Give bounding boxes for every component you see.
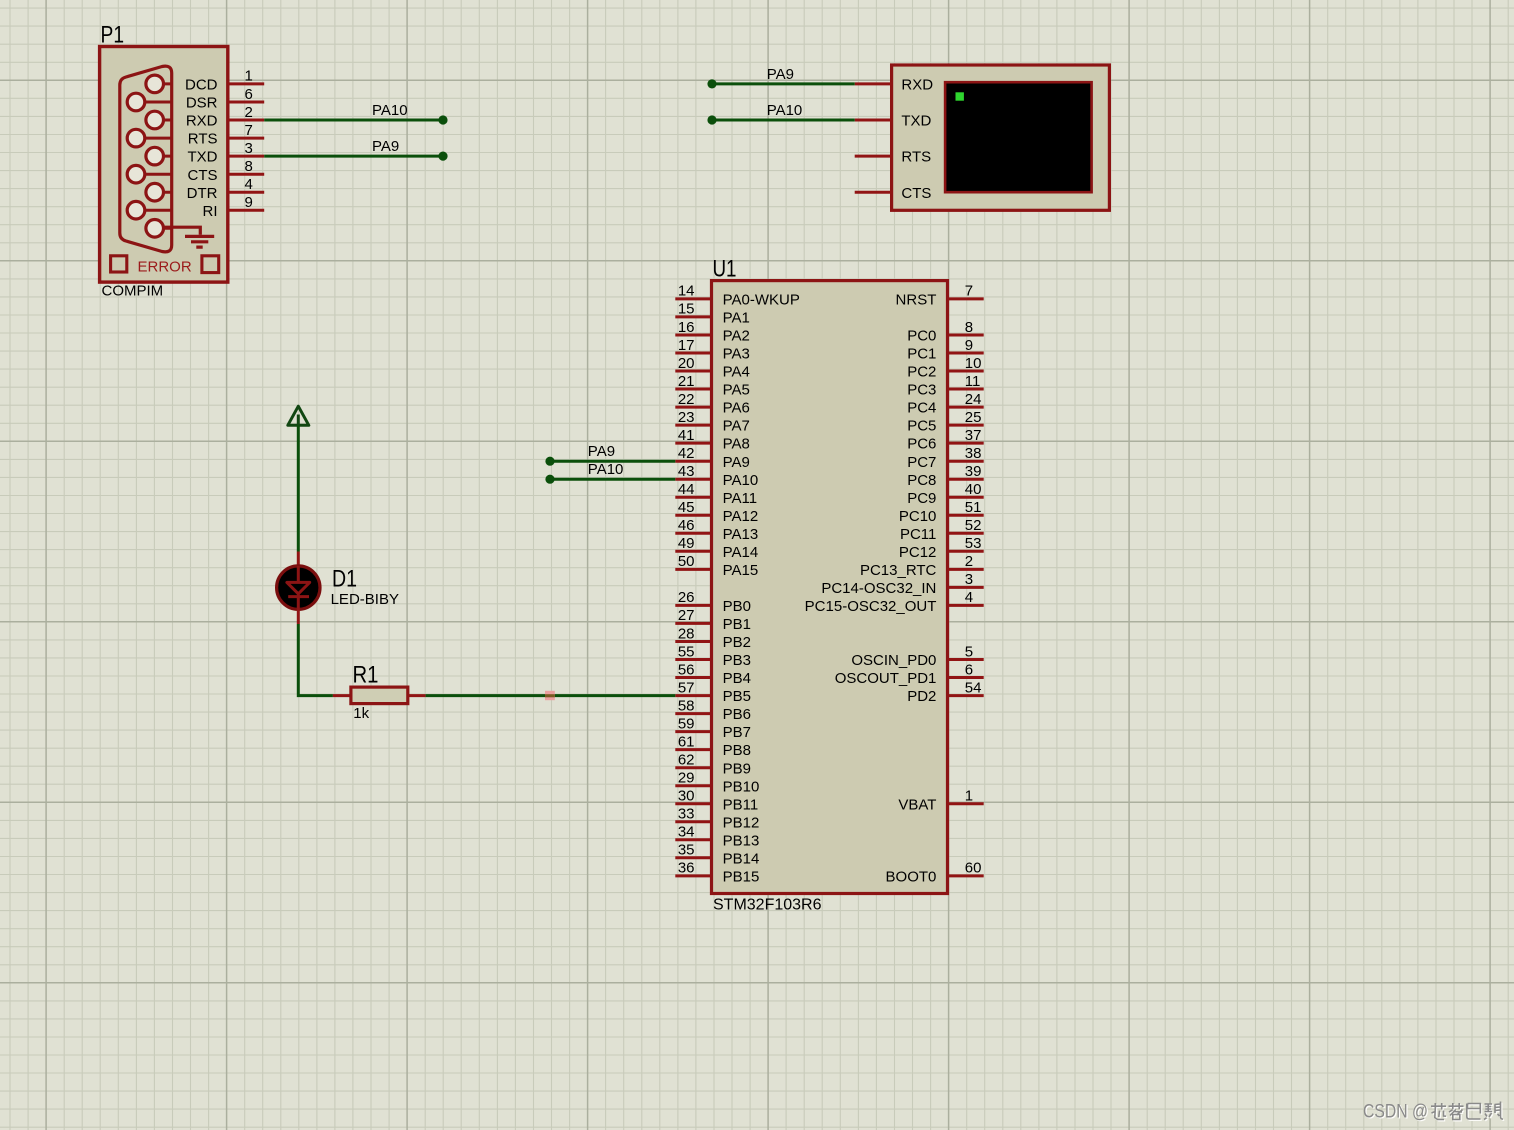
svg-text:PC13_RTC: PC13_RTC [860, 562, 937, 579]
pin PB3, pin number 55 of U1 (left) [675, 643, 751, 669]
svg-text:26: 26 [678, 589, 695, 606]
svg-text:PB14: PB14 [723, 850, 760, 867]
DB9 shell outline [120, 66, 172, 252]
LED D1 anode pin [297, 552, 300, 567]
svg-text:OSCIN_PD0: OSCIN_PD0 [851, 652, 936, 669]
resistor R1 right pin [408, 694, 426, 697]
pin PC6, pin number 37 of U1 (right) [907, 427, 983, 453]
pin PC2, pin number 10 of U1 (right) [907, 355, 983, 381]
svg-text:15: 15 [678, 301, 695, 318]
pin PB13, pin number 34 of U1 (left) [675, 824, 759, 850]
svg-text:PB7: PB7 [723, 724, 751, 741]
wire PA9 to terminal RXD [712, 82, 855, 85]
svg-text:8: 8 [965, 319, 973, 336]
svg-text:PC12: PC12 [899, 544, 937, 561]
svg-text:PB9: PB9 [723, 760, 751, 777]
pin BOOT0, pin number 60 of U1 (right) [886, 860, 984, 886]
svg-text:8: 8 [245, 158, 253, 175]
svg-text:4: 4 [245, 176, 253, 193]
pin PC4, pin number 24 of U1 (right) [907, 391, 983, 417]
terminal pin TXD [855, 113, 932, 130]
svg-text:COMPIM: COMPIM [102, 282, 164, 299]
svg-text:PA4: PA4 [723, 364, 750, 381]
pin PB9, pin number 62 of U1 (left) [675, 752, 751, 778]
svg-text:PC9: PC9 [907, 490, 936, 507]
LED D1 body [277, 566, 320, 610]
svg-text:PB0: PB0 [723, 598, 751, 615]
svg-text:PA14: PA14 [723, 544, 759, 561]
svg-text:PA6: PA6 [723, 400, 750, 417]
pin PA2, pin number 16 of U1 (left) [675, 319, 750, 345]
svg-text:PB1: PB1 [723, 616, 751, 633]
svg-text:U1: U1 [713, 255, 737, 282]
svg-text:43: 43 [678, 463, 695, 480]
ground symbol inside P1 [164, 227, 215, 247]
svg-text:RTS: RTS [901, 149, 931, 166]
svg-text:PB11: PB11 [723, 796, 759, 813]
svg-text:PC6: PC6 [907, 436, 936, 453]
virtual terminal body [892, 65, 1110, 210]
pin PC5, pin number 25 of U1 (right) [907, 409, 983, 435]
svg-text:PC15-OSC32_OUT: PC15-OSC32_OUT [805, 598, 937, 615]
svg-text:PA1: PA1 [723, 310, 750, 327]
svg-text:1: 1 [965, 788, 973, 805]
terminal pin RTS [855, 149, 931, 166]
svg-text:24: 24 [965, 391, 982, 408]
pin PB7, pin number 59 of U1 (left) [675, 715, 751, 741]
connector P1 COMPIM body [100, 47, 228, 283]
pin PC7, pin number 38 of U1 (right) [907, 445, 983, 471]
svg-text:53: 53 [965, 535, 982, 552]
ERROR indicator right square [202, 256, 219, 273]
svg-text:11: 11 [965, 373, 981, 390]
svg-text:BOOT0: BOOT0 [886, 869, 937, 886]
svg-text:PA12: PA12 [723, 508, 759, 525]
pin PA6, pin number 22 of U1 (left) [675, 391, 750, 417]
svg-text:37: 37 [965, 427, 982, 444]
wire PA9 from P1 TXD pin 3 [264, 155, 443, 158]
terminal cursor [956, 92, 964, 100]
svg-text:ERROR: ERROR [138, 258, 192, 275]
svg-text:17: 17 [678, 337, 695, 354]
pin PD2, pin number 54 of U1 (right) [907, 679, 983, 705]
svg-text:39: 39 [965, 463, 982, 480]
watermark CSDN [1363, 1102, 1504, 1124]
svg-text:27: 27 [678, 607, 695, 624]
svg-text:PB3: PB3 [723, 652, 751, 669]
svg-text:RI: RI [203, 203, 218, 220]
svg-text:55: 55 [678, 643, 695, 660]
pin PB6, pin number 58 of U1 (left) [675, 697, 751, 723]
svg-text:38: 38 [965, 445, 982, 462]
pin PC15-OSC32_OUT, pin number 4 of U1 (right) [805, 589, 984, 615]
svg-text:56: 56 [678, 661, 695, 678]
svg-text:PC3: PC3 [907, 382, 936, 399]
svg-text:7: 7 [245, 122, 253, 139]
svg-text:PB13: PB13 [723, 832, 760, 849]
simulation logic-state marker on PB5 wire [545, 691, 555, 700]
svg-text:DSR: DSR [186, 95, 218, 112]
svg-text:44: 44 [678, 481, 695, 498]
svg-text:51: 51 [965, 499, 982, 516]
svg-text:6: 6 [245, 86, 253, 103]
svg-text:STM32F103R6: STM32F103R6 [713, 897, 822, 914]
svg-text:PB6: PB6 [723, 706, 751, 723]
svg-text:9: 9 [245, 194, 253, 211]
svg-text:PD2: PD2 [907, 688, 936, 705]
svg-text:R1: R1 [353, 661, 379, 688]
pin PA5, pin number 21 of U1 (left) [675, 373, 750, 399]
svg-text:40: 40 [965, 481, 982, 498]
pin DTR, pin number 4 of P1 [187, 176, 265, 202]
svg-text:5: 5 [965, 643, 973, 660]
svg-text:9: 9 [965, 337, 973, 354]
pin PC11, pin number 52 of U1 (right) [900, 517, 984, 543]
svg-text:PB8: PB8 [723, 742, 751, 759]
svg-text:PC5: PC5 [907, 418, 936, 435]
svg-text:PA10: PA10 [588, 461, 624, 478]
pin PC13_RTC, pin number 2 of U1 (right) [860, 553, 984, 579]
pin PC0, pin number 8 of U1 (right) [907, 319, 983, 345]
wire D1 cathode to R1 (down and right) [298, 624, 333, 696]
svg-text:28: 28 [678, 625, 695, 642]
svg-text:PC2: PC2 [907, 364, 936, 381]
svg-text:22: 22 [678, 391, 695, 408]
pin PC14-OSC32_IN, pin number 3 of U1 (right) [821, 571, 983, 597]
svg-text:PC7: PC7 [907, 454, 936, 471]
svg-text:PA5: PA5 [723, 382, 750, 399]
svg-text:PB10: PB10 [723, 778, 760, 795]
svg-text:VBAT: VBAT [898, 796, 936, 813]
pin OSCOUT_PD1, pin number 6 of U1 (right) [835, 661, 984, 687]
pin RTS, pin number 7 of P1 [188, 122, 264, 148]
svg-text:33: 33 [678, 806, 695, 823]
pin DCD, pin number 1 of P1 [185, 68, 264, 94]
pin PB5, pin number 57 of U1 (left) [675, 679, 751, 705]
svg-text:60: 60 [965, 860, 982, 877]
svg-text:1: 1 [245, 68, 253, 85]
wire PA10 to terminal TXD [712, 119, 855, 122]
svg-text:PA8: PA8 [723, 436, 750, 453]
svg-text:30: 30 [678, 788, 695, 805]
svg-text:42: 42 [678, 445, 695, 462]
pin PB4, pin number 56 of U1 (left) [675, 661, 751, 687]
svg-text:TXD: TXD [188, 149, 218, 166]
svg-text:4: 4 [965, 589, 973, 606]
pin TXD, pin number 3 of P1 [188, 140, 265, 166]
pin PC1, pin number 9 of U1 (right) [907, 337, 983, 363]
svg-text:57: 57 [678, 679, 695, 696]
svg-text:PA10: PA10 [372, 102, 408, 119]
ERROR indicator left square [111, 256, 127, 272]
svg-text:CTS: CTS [901, 185, 931, 202]
svg-text:59: 59 [678, 715, 695, 732]
pin OSCIN_PD0, pin number 5 of U1 (right) [851, 643, 983, 669]
terminal pin CTS [855, 185, 932, 202]
svg-text:TXD: TXD [901, 113, 931, 130]
svg-text:CTS: CTS [188, 167, 218, 184]
wire R1 to U1 PB5 pin 57 [426, 694, 676, 697]
wire PA10 to U1 pin 43 [550, 478, 675, 481]
resistor R1 body [351, 687, 408, 704]
pin PA11, pin number 44 of U1 (left) [675, 481, 757, 507]
wire PA10 from P1 RXD pin 2 [264, 119, 443, 122]
svg-text:21: 21 [678, 373, 695, 390]
svg-text:NRST: NRST [896, 292, 937, 309]
svg-text:7: 7 [965, 283, 973, 300]
svg-text:DTR: DTR [187, 185, 218, 202]
svg-text:PB12: PB12 [723, 814, 760, 831]
pin PC12, pin number 53 of U1 (right) [899, 535, 984, 561]
pin PB10, pin number 29 of U1 (left) [675, 770, 759, 796]
svg-text:PB4: PB4 [723, 670, 751, 687]
pin PB1, pin number 27 of U1 (left) [675, 607, 751, 633]
svg-text:14: 14 [678, 283, 695, 300]
svg-text:CSDN @: CSDN @ [1363, 1102, 1428, 1123]
svg-text:10: 10 [965, 355, 982, 372]
svg-text:PA9: PA9 [723, 454, 750, 471]
pin RXD, pin number 2 of P1 [186, 104, 264, 130]
DB9 pin hole link wires [136, 84, 172, 228]
svg-text:46: 46 [678, 517, 695, 534]
svg-text:23: 23 [678, 409, 695, 426]
svg-text:PA15: PA15 [723, 562, 759, 579]
svg-text:2: 2 [245, 104, 253, 121]
power terminal VCC arrow [288, 406, 309, 425]
pin PB0, pin number 26 of U1 (left) [675, 589, 751, 615]
svg-text:PB5: PB5 [723, 688, 751, 705]
pin PB2, pin number 28 of U1 (left) [675, 625, 751, 651]
pin PA3, pin number 17 of U1 (left) [675, 337, 750, 363]
svg-text:29: 29 [678, 770, 695, 787]
pin CTS, pin number 8 of P1 [188, 158, 265, 184]
svg-text:P1: P1 [101, 21, 125, 48]
pin VBAT, pin number 1 of U1 (right) [898, 788, 983, 814]
svg-text:PA10: PA10 [767, 102, 803, 119]
IC U1 STM32F103R6 body [712, 281, 948, 894]
pin PA13, pin number 46 of U1 (left) [675, 517, 758, 543]
svg-text:PB15: PB15 [723, 869, 760, 886]
svg-text:PA13: PA13 [723, 526, 759, 543]
svg-text:PA9: PA9 [372, 138, 399, 155]
svg-text:PA9: PA9 [588, 443, 615, 460]
pin RI, pin number 9 of P1 [203, 194, 265, 220]
svg-text:49: 49 [678, 535, 695, 552]
svg-text:PA0-WKUP: PA0-WKUP [723, 292, 800, 309]
pin PB8, pin number 61 of U1 (left) [675, 733, 751, 759]
pin NRST, pin number 7 of U1 (right) [896, 283, 984, 309]
svg-text:54: 54 [965, 679, 982, 696]
svg-text:6: 6 [965, 661, 973, 678]
pin PC9, pin number 40 of U1 (right) [907, 481, 983, 507]
svg-text:2: 2 [965, 553, 973, 570]
pin PA14, pin number 49 of U1 (left) [675, 535, 758, 561]
svg-text:PA10: PA10 [723, 472, 759, 489]
svg-text:36: 36 [678, 860, 695, 877]
svg-text:25: 25 [965, 409, 982, 426]
pin PC3, pin number 11 of U1 (right) [907, 373, 983, 399]
svg-text:D1: D1 [332, 566, 357, 593]
svg-text:PC14-OSC32_IN: PC14-OSC32_IN [821, 580, 936, 597]
junction dot PA9 (P1 side) [438, 152, 447, 161]
svg-text:PA9: PA9 [767, 66, 794, 83]
svg-text:3: 3 [965, 571, 973, 588]
svg-text:35: 35 [678, 842, 695, 859]
svg-text:PC8: PC8 [907, 472, 936, 489]
pin PA8, pin number 41 of U1 (left) [675, 427, 750, 453]
svg-text:PC4: PC4 [907, 400, 936, 417]
pin PB12, pin number 33 of U1 (left) [675, 806, 759, 832]
svg-text:34: 34 [678, 824, 695, 841]
svg-text:LED-BIBY: LED-BIBY [331, 591, 399, 608]
DB9 pin holes (9 circles) [146, 75, 164, 93]
svg-text:DCD: DCD [185, 77, 218, 94]
pin PB14, pin number 35 of U1 (left) [675, 842, 759, 868]
svg-text:RXD: RXD [901, 77, 933, 94]
pin PA15, pin number 50 of U1 (left) [675, 553, 758, 579]
svg-text:45: 45 [678, 499, 695, 516]
svg-text:1k: 1k [353, 705, 369, 722]
svg-text:20: 20 [678, 355, 695, 372]
svg-text:61: 61 [678, 733, 695, 750]
svg-text:41: 41 [678, 427, 695, 444]
pin PC8, pin number 39 of U1 (right) [907, 463, 983, 489]
svg-text:RTS: RTS [188, 131, 218, 148]
svg-text:PC0: PC0 [907, 328, 936, 345]
wire VCC arrow to D1 anode [297, 425, 300, 551]
junction dot PA9 (U1 side) [545, 457, 554, 466]
resistor R1 left pin [333, 694, 351, 697]
svg-text:52: 52 [965, 517, 982, 534]
wire PA9 to U1 pin 42 [550, 460, 675, 463]
svg-text:PB2: PB2 [723, 634, 751, 651]
svg-text:PC10: PC10 [899, 508, 937, 525]
pin DSR, pin number 6 of P1 [186, 86, 264, 112]
svg-text:3: 3 [245, 140, 253, 157]
terminal screen [945, 82, 1092, 192]
junction dot PA10 (terminal side) [707, 115, 716, 124]
svg-text:58: 58 [678, 697, 695, 714]
pin PA1, pin number 15 of U1 (left) [675, 301, 750, 327]
svg-text:PC11: PC11 [900, 526, 936, 543]
pin PC10, pin number 51 of U1 (right) [899, 499, 984, 525]
svg-text:50: 50 [678, 553, 695, 570]
junction dot PA10 (U1 side) [545, 475, 554, 484]
pin PA7, pin number 23 of U1 (left) [675, 409, 750, 435]
pin PB11, pin number 30 of U1 (left) [675, 788, 758, 814]
svg-text:PA7: PA7 [723, 418, 750, 435]
junction dot PA10 (P1 side) [438, 115, 447, 124]
terminal pin RXD [855, 77, 934, 94]
pin PA12, pin number 45 of U1 (left) [675, 499, 758, 525]
svg-text:PA2: PA2 [723, 328, 750, 345]
svg-text:PC1: PC1 [907, 346, 936, 363]
svg-text:RXD: RXD [186, 113, 218, 130]
svg-text:PA3: PA3 [723, 346, 750, 363]
svg-text:62: 62 [678, 752, 695, 769]
pin PA9, pin number 42 of U1 (left) [675, 445, 750, 471]
pin PA0-WKUP, pin number 14 of U1 (left) [675, 283, 800, 309]
junction dot PA9 (terminal side) [707, 79, 716, 88]
pin PB15, pin number 36 of U1 (left) [675, 860, 759, 886]
svg-text:PA11: PA11 [723, 490, 757, 507]
pin PA10, pin number 43 of U1 (left) [675, 463, 758, 489]
pin PA4, pin number 20 of U1 (left) [675, 355, 750, 381]
LED D1 cathode pin [297, 610, 300, 625]
svg-text:16: 16 [678, 319, 695, 336]
svg-text:OSCOUT_PD1: OSCOUT_PD1 [835, 670, 937, 687]
